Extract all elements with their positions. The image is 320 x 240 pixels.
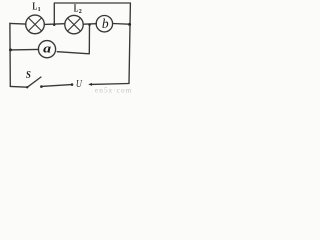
svg-text:U: U [76, 79, 83, 90]
svg-text:L: L [32, 1, 37, 12]
svg-text:2: 2 [79, 9, 82, 15]
svg-text:1: 1 [38, 7, 41, 13]
svg-text:b: b [102, 16, 109, 31]
svg-text:S: S [26, 70, 31, 81]
svg-text:a: a [43, 40, 52, 55]
svg-text:en5x·com: en5x·com [95, 85, 132, 93]
